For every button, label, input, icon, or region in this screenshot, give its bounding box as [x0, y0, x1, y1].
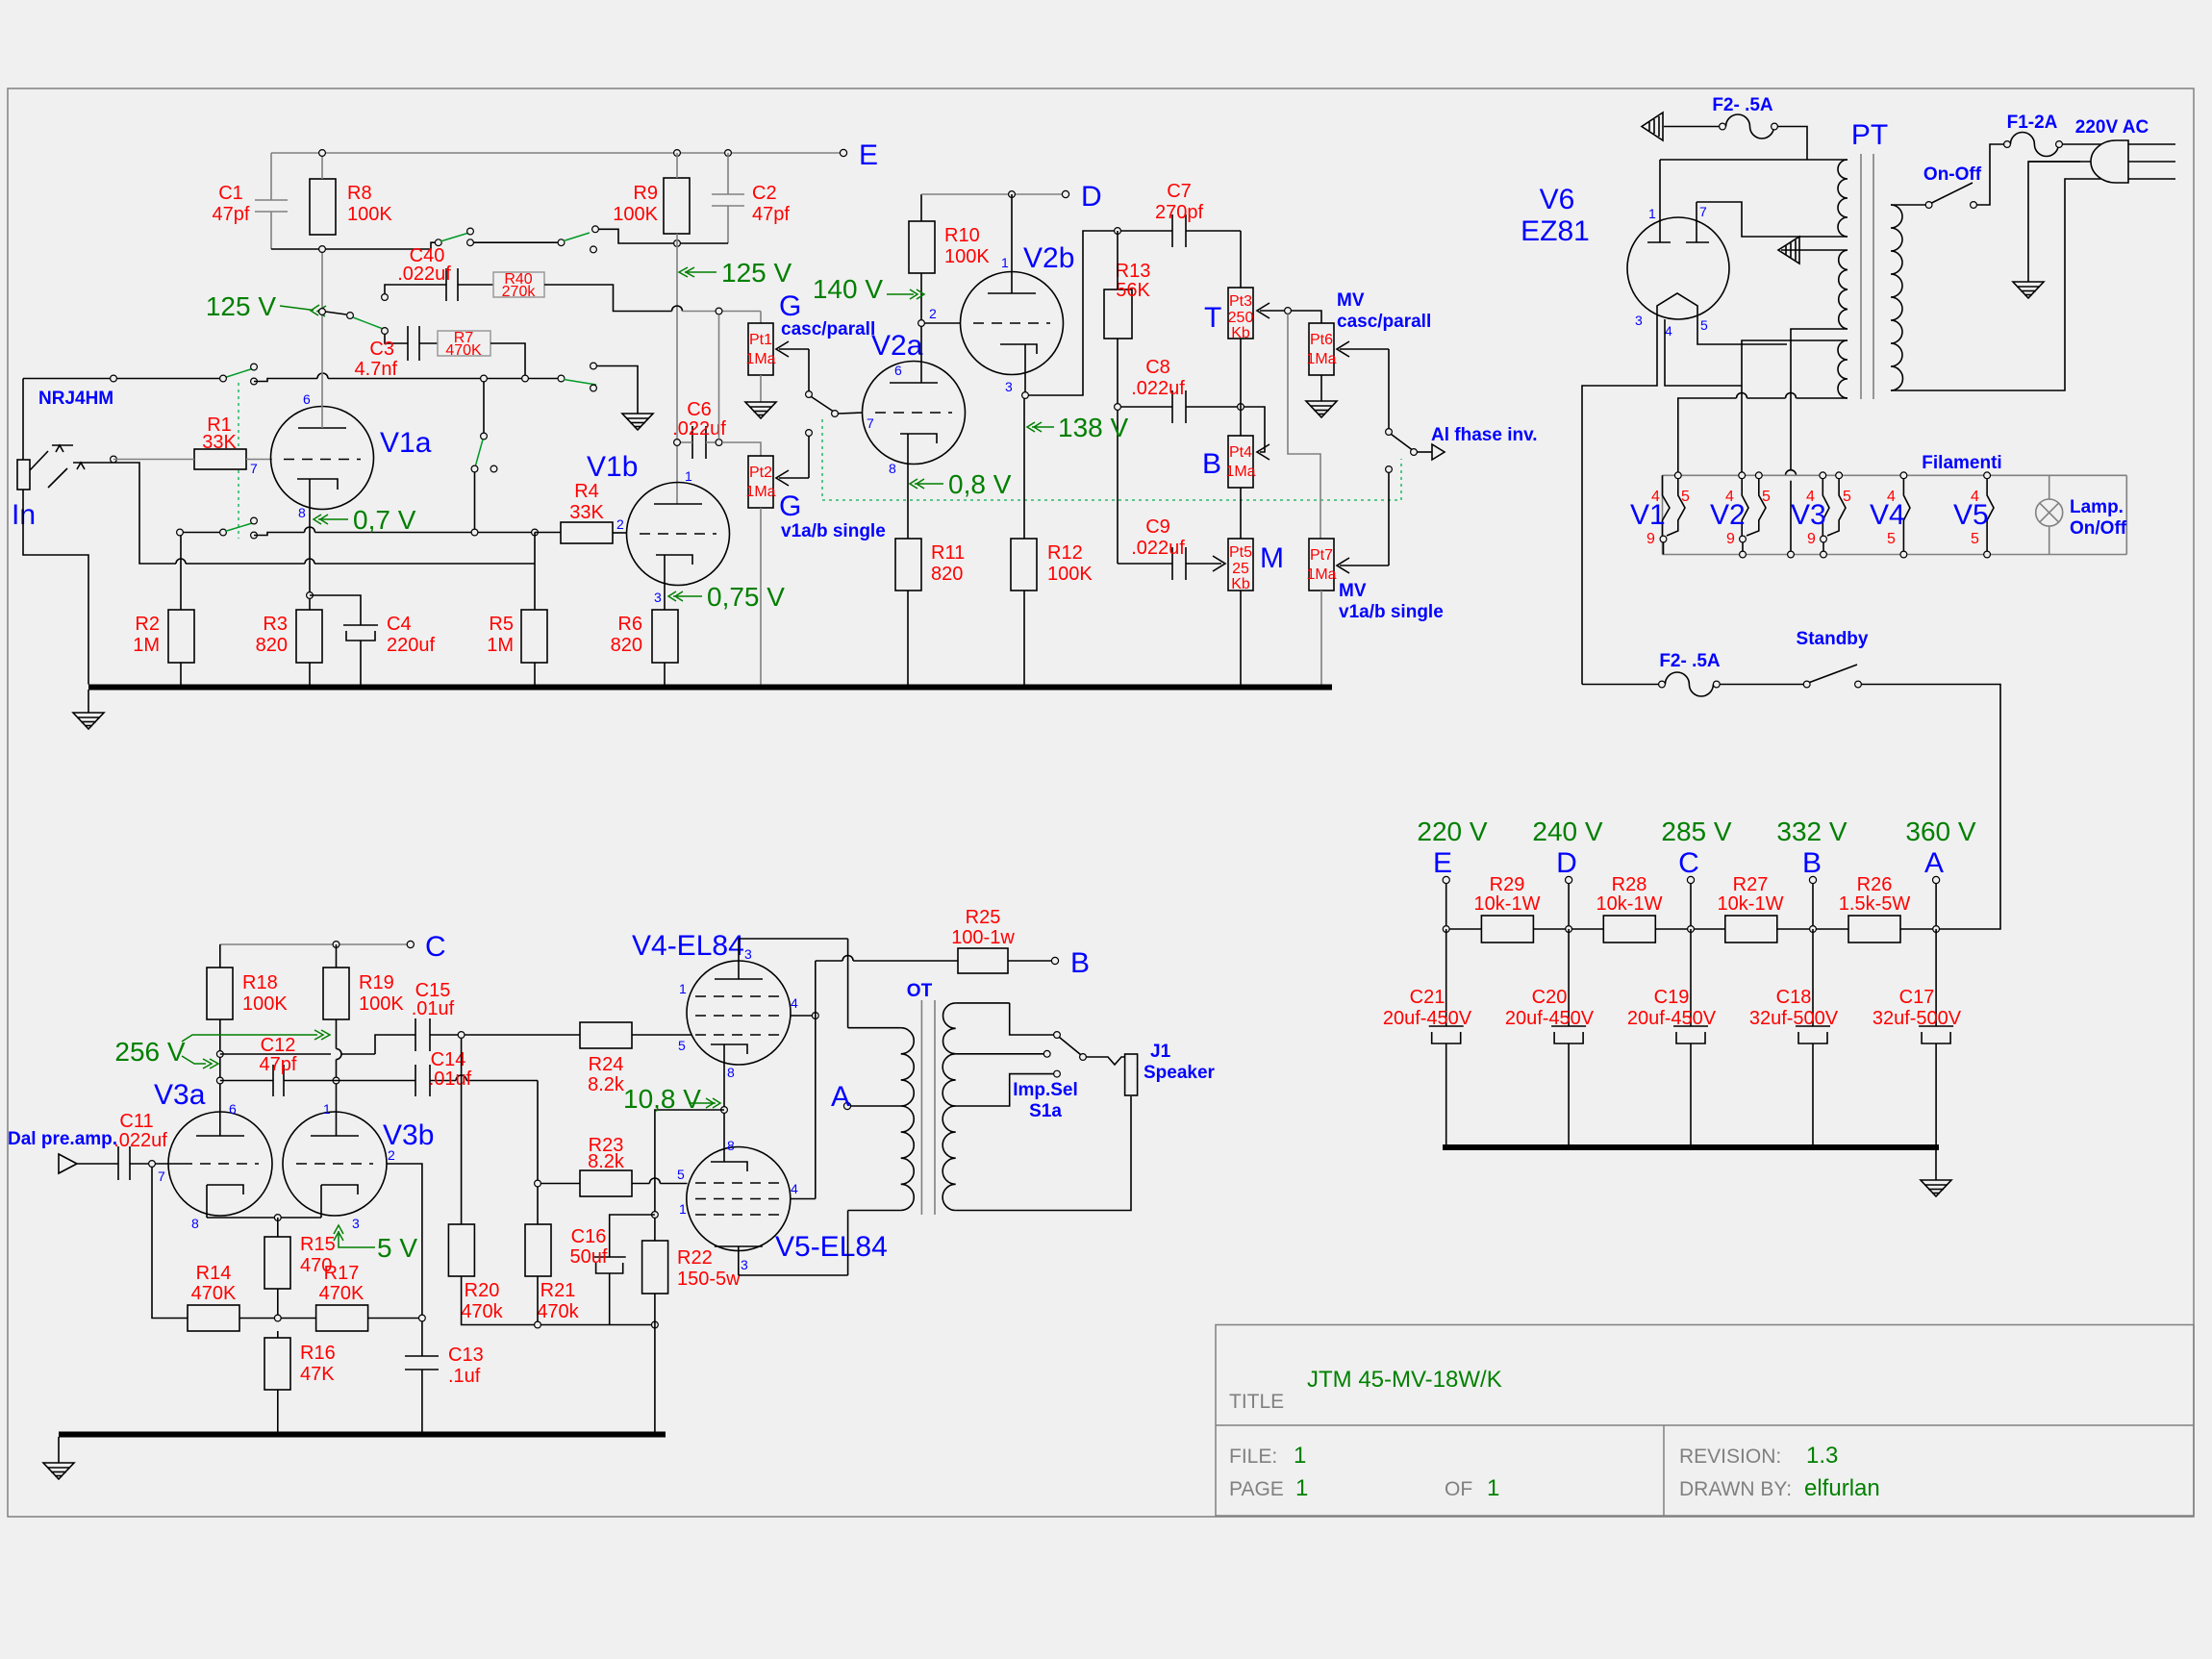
wire switch to R4 node	[474, 472, 476, 533]
potentiometer Pt7	[1309, 539, 1334, 591]
mains plug 220V AC	[2091, 140, 2128, 183]
svg-text:C8: C8	[1145, 357, 1170, 378]
svg-text:R17: R17	[324, 1263, 360, 1284]
wire V6 pin3 B+ out	[1582, 319, 1657, 685]
svg-text:R14: R14	[196, 1263, 232, 1284]
svg-text:C1: C1	[218, 183, 243, 204]
svg-text:V4: V4	[1870, 499, 1905, 531]
fuse F2 standby	[1582, 672, 1713, 696]
svg-text:R5: R5	[489, 614, 514, 635]
ground bus phase inverter	[59, 1432, 666, 1438]
svg-text:1.5k-5W: 1.5k-5W	[1839, 893, 1911, 915]
svg-text:470K: 470K	[319, 1283, 364, 1304]
svg-text:470K: 470K	[191, 1283, 237, 1304]
svg-text:V1a: V1a	[380, 427, 432, 459]
resistor R10	[909, 221, 935, 273]
potentiometer Pt3	[1228, 288, 1253, 339]
junction MV feed	[1285, 308, 1292, 314]
svg-text:V1b: V1b	[587, 451, 638, 483]
wire jack tip up to grid rail	[22, 379, 24, 461]
svg-text:100K: 100K	[1047, 564, 1093, 585]
wire pin4 node down to filament rail	[1741, 386, 1743, 472]
green arrow 125V at R9	[679, 267, 716, 277]
wire secondary bottom to jack sleeve	[956, 1096, 1131, 1211]
ground bus preamp	[88, 685, 1332, 691]
capacitor C6	[692, 426, 706, 459]
svg-text:R3: R3	[263, 614, 288, 635]
heater V2	[1742, 479, 1766, 536]
svg-text:1: 1	[685, 468, 692, 484]
wire R18 bottom to V3a plate	[219, 1019, 221, 1136]
svg-text:V2b: V2b	[1023, 242, 1074, 274]
svg-text:56K: 56K	[1116, 280, 1150, 301]
svg-text:R22: R22	[677, 1247, 713, 1269]
potentiometer Pt6	[1309, 323, 1334, 375]
capacitor C17	[1919, 929, 1953, 1144]
svg-text:2: 2	[388, 1147, 395, 1163]
svg-text:B: B	[1202, 448, 1221, 480]
svg-text:B: B	[1802, 847, 1822, 879]
svg-text:4: 4	[791, 995, 798, 1011]
switch Al fhase inv	[1386, 429, 1393, 436]
transformer PT core	[1861, 154, 1873, 399]
svg-text:R6: R6	[617, 614, 642, 635]
wire R7 out down to grid rail	[490, 343, 525, 375]
green dotted link line	[238, 383, 239, 539]
switch S-C40/C3 select	[325, 312, 346, 314]
capacitor C8	[1120, 390, 1241, 423]
svg-text:V2: V2	[1710, 499, 1746, 531]
svg-text:820: 820	[611, 635, 642, 656]
switch lower contact to Pt7 wiper	[1386, 466, 1393, 473]
svg-text:R11: R11	[931, 542, 965, 564]
junction	[481, 375, 488, 382]
wire R13 leads	[1117, 231, 1119, 289]
svg-text:v1a/b single: v1a/b single	[781, 521, 886, 541]
wire grid rail B with hop over V1a plate riser	[254, 373, 562, 382]
wire R2 leads	[180, 533, 182, 611]
resistor R1	[194, 449, 246, 469]
svg-text:7: 7	[867, 415, 874, 431]
svg-text:.01uf: .01uf	[412, 998, 455, 1019]
green dotted MV link	[822, 419, 1401, 500]
heater V1	[1663, 475, 1686, 536]
wire R16 leads	[277, 1331, 279, 1338]
capacitor C16	[593, 1215, 655, 1325]
Pt1 wiper arrow	[776, 341, 809, 391]
wire winding2 bottom to filament bottom rail	[1786, 329, 1848, 555]
resistor R11	[895, 539, 921, 591]
svg-text:3: 3	[1005, 379, 1013, 394]
svg-text:4: 4	[1665, 323, 1672, 339]
Pt6 wiper arrow from switch	[1337, 341, 1389, 429]
svg-text:E: E	[1433, 847, 1452, 879]
wire V1a plate riser (R8 bottom to plate, crosses grid rail)	[321, 249, 323, 428]
svg-text:V6: V6	[1540, 184, 1575, 215]
resistor R22	[642, 1241, 668, 1294]
svg-text:8: 8	[727, 1138, 735, 1153]
svg-text:100K: 100K	[242, 993, 288, 1015]
wire R19 bottom to V3b plate (hop over C15 wire)	[337, 1019, 342, 1136]
svg-text:100K: 100K	[613, 204, 658, 225]
green arrow 138 V	[1027, 422, 1054, 432]
wire R9 top	[676, 153, 678, 178]
svg-text:1Ma: 1Ma	[1225, 464, 1255, 480]
wire MV riser down to Pt7	[1288, 314, 1320, 539]
svg-text:10,8 V: 10,8 V	[623, 1084, 701, 1114]
ground bus B+ filter	[1443, 1144, 1939, 1150]
svg-text:332 V: 332 V	[1776, 817, 1847, 846]
wire V2b plate riser	[1011, 194, 1013, 293]
wire Pt4 to Pt5	[1240, 488, 1242, 539]
chassis arrow left of F2	[1642, 113, 1720, 140]
svg-text:OF: OF	[1445, 1478, 1472, 1500]
wire primary bottom to plug	[1891, 179, 2175, 390]
svg-text:R10: R10	[944, 225, 980, 246]
wire screen rail	[815, 961, 817, 1199]
green arrow 140 V	[887, 289, 924, 299]
PT mains primary winding	[1891, 205, 1903, 390]
svg-text:G: G	[779, 290, 801, 322]
junction	[471, 529, 478, 536]
svg-text:820: 820	[931, 564, 963, 585]
wire C6 node riser	[718, 314, 720, 440]
switch S-grid-A wiper	[225, 369, 252, 378]
svg-text:33K: 33K	[569, 502, 604, 523]
svg-text:4: 4	[791, 1181, 798, 1196]
svg-text:100K: 100K	[944, 246, 990, 267]
svg-text:5: 5	[678, 1038, 686, 1053]
wire R11 bottom	[907, 591, 909, 685]
junction	[319, 246, 326, 253]
filament top rail	[1663, 474, 2127, 476]
wire cathode node to R22	[655, 1110, 724, 1241]
svg-text:Standby: Standby	[1797, 629, 1869, 649]
svg-text:10k-1W: 10k-1W	[1718, 893, 1784, 915]
node stubs	[1446, 883, 1936, 929]
resistor R23	[580, 1170, 632, 1196]
resistor R4	[561, 522, 613, 543]
svg-text:5: 5	[1971, 531, 1979, 547]
triode V3a	[168, 1112, 272, 1216]
jack J1 Speaker	[1125, 1054, 1138, 1095]
svg-text:F2- .5A: F2- .5A	[1712, 95, 1773, 115]
wire fuse to standby	[1720, 684, 1803, 686]
svg-text:.1uf: .1uf	[448, 1366, 481, 1387]
svg-text:140 V: 140 V	[813, 274, 883, 304]
junction	[725, 150, 732, 157]
svg-text:47pf: 47pf	[752, 204, 790, 225]
svg-text:5: 5	[1700, 317, 1708, 333]
OT primary lower	[848, 1106, 915, 1211]
potentiometer Pt1	[748, 323, 773, 375]
svg-text:Speaker: Speaker	[1144, 1063, 1216, 1083]
svg-text:220V AC: 220V AC	[2075, 117, 2149, 138]
junction C6 riser top	[716, 308, 722, 314]
junction	[111, 375, 117, 382]
svg-text:3: 3	[741, 1257, 748, 1272]
svg-text:Kb: Kb	[1231, 576, 1250, 592]
potentiometer Pt4	[1228, 436, 1253, 488]
capacitor C12	[220, 1065, 337, 1096]
svg-text:V5-EL84: V5-EL84	[775, 1231, 888, 1263]
svg-text:PAGE: PAGE	[1229, 1478, 1284, 1500]
svg-text:125 V: 125 V	[206, 291, 276, 321]
wire secondary low tap	[956, 1074, 1054, 1106]
wire C14 to R21	[537, 1081, 539, 1225]
junction C8 left	[1115, 404, 1121, 411]
switch Imp.Sel S1a	[1060, 1038, 1081, 1055]
capacitor C19	[1673, 929, 1708, 1144]
svg-text:.022uf: .022uf	[1131, 538, 1185, 559]
wire R5 leads	[534, 533, 536, 611]
junction	[522, 375, 529, 382]
svg-text:V3: V3	[1791, 499, 1826, 531]
switch G casc/parall	[806, 391, 813, 398]
svg-text:Pt6: Pt6	[1310, 332, 1333, 348]
svg-text:1: 1	[1648, 206, 1656, 221]
triode V3b	[283, 1112, 387, 1216]
svg-text:5: 5	[1887, 531, 1896, 547]
svg-text:elfurlan: elfurlan	[1804, 1475, 1880, 1501]
wire V2b cathode feedback to C7 rail	[1028, 231, 1172, 395]
svg-text:8.2k: 8.2k	[588, 1074, 625, 1095]
resistor R29	[1481, 916, 1533, 943]
svg-text:Filamenti: Filamenti	[1922, 453, 2001, 473]
resistor R28	[1603, 916, 1655, 943]
svg-text:OT: OT	[907, 981, 933, 1001]
resistor R27	[1725, 916, 1777, 943]
svg-text:PT: PT	[1851, 119, 1888, 151]
svg-text:Al fhase inv.: Al fhase inv.	[1431, 425, 1538, 445]
svg-text:R2: R2	[135, 614, 160, 635]
wire R6 bottom	[664, 663, 666, 685]
svg-text:C20: C20	[1532, 987, 1568, 1008]
wire winding3 bottom to filament rail	[1678, 393, 1848, 472]
svg-text:470K: 470K	[445, 342, 482, 359]
svg-text:10k-1W: 10k-1W	[1596, 893, 1663, 915]
wire Pt2 bottom to bus	[760, 508, 762, 685]
svg-text:20uf-450V: 20uf-450V	[1627, 1008, 1717, 1029]
svg-text:1.3: 1.3	[1806, 1443, 1838, 1469]
wire V4 cathode down	[723, 1044, 725, 1162]
resistor R9	[664, 178, 690, 234]
wire R18/R19 top leads	[219, 944, 221, 968]
svg-text:F2- .5A: F2- .5A	[1659, 651, 1721, 671]
resistor R3	[296, 610, 322, 663]
switch S-casc-A left	[435, 239, 441, 246]
wire E rail	[271, 152, 843, 154]
wire F2 to HT winding / pin1	[1777, 127, 1807, 161]
svg-text:M: M	[1260, 542, 1284, 574]
svg-text:1Ma: 1Ma	[1306, 566, 1336, 583]
svg-text:C12: C12	[261, 1035, 296, 1056]
capacitor C1	[255, 153, 288, 249]
svg-text:NRJ4HM: NRJ4HM	[38, 389, 113, 409]
svg-text:V4-EL84: V4-EL84	[632, 930, 744, 962]
wire junction to Pt6 top	[1291, 311, 1321, 323]
junction C15/R20	[458, 1032, 465, 1039]
wire screen to R25 (hop over plate wire)	[816, 956, 958, 962]
input arrow from preamp	[59, 1154, 77, 1173]
resistor R12	[1011, 539, 1037, 591]
svg-text:.022uf: .022uf	[1131, 378, 1185, 399]
svg-text:150-5w: 150-5w	[677, 1269, 741, 1290]
wire R4 to V1b grid	[613, 532, 627, 534]
svg-text:R15: R15	[300, 1234, 336, 1255]
svg-text:3: 3	[654, 590, 662, 605]
svg-text:.022uf: .022uf	[113, 1130, 167, 1151]
wire C rail	[220, 943, 411, 945]
junction winding2 wire at bottom rail	[1788, 551, 1795, 558]
chassis arrow winding 2 top	[1778, 237, 1848, 264]
svg-text:9: 9	[1807, 531, 1816, 547]
svg-text:470k: 470k	[461, 1301, 503, 1322]
wire V1a cathode down to R3	[309, 479, 311, 610]
svg-text:D: D	[1556, 847, 1577, 879]
input jack NRJ4HM	[17, 445, 93, 490]
svg-text:REVISION:: REVISION:	[1679, 1445, 1781, 1468]
svg-text:DRAWN BY:: DRAWN BY:	[1679, 1478, 1792, 1500]
earth ground mains	[2013, 282, 2044, 298]
wire between switch halves	[473, 241, 558, 243]
svg-text:0,7 V: 0,7 V	[353, 505, 416, 535]
svg-text:32uf-500V: 32uf-500V	[1873, 1008, 1962, 1029]
svg-text:A: A	[1924, 847, 1944, 879]
svg-text:50uf: 50uf	[570, 1246, 608, 1268]
capacitor C13	[405, 1321, 439, 1435]
wire C6 node to Pt2	[722, 442, 761, 456]
wire standby to B+ rail	[1861, 685, 2000, 930]
pilot lamp	[2036, 475, 2063, 554]
svg-text:R16: R16	[300, 1343, 336, 1364]
junction C11/R14	[149, 1161, 156, 1168]
capacitor C40	[385, 268, 493, 301]
heater V3	[1822, 479, 1846, 536]
wire V5 g2 to screen rail	[791, 1198, 816, 1200]
wire R40 out to Pt1 feed (hop over V1b plate riser)	[544, 285, 683, 312]
heater V5	[1987, 479, 1994, 551]
wire V3a cathode leads	[206, 1185, 208, 1218]
junction cathode/C4	[307, 592, 314, 599]
svg-text:V5: V5	[1953, 499, 1989, 531]
resistor R16	[264, 1338, 290, 1390]
wire V6 pin4 heater	[1665, 319, 1742, 386]
resistor R13	[1104, 289, 1132, 339]
wire F1 to plug	[2062, 143, 2175, 145]
svg-text:T: T	[1204, 302, 1221, 334]
svg-text:C6: C6	[687, 399, 712, 420]
svg-text:Pt4: Pt4	[1229, 444, 1252, 461]
svg-text:Lamp.: Lamp.	[2070, 497, 2124, 517]
resistor R7	[438, 331, 490, 356]
triode V2b	[961, 272, 1064, 375]
wire C8 node to Pt4 wiper	[1244, 407, 1269, 460]
svg-text:1: 1	[679, 981, 687, 996]
svg-text:Dal pre.amp.: Dal pre.amp.	[8, 1129, 117, 1149]
resistor R6	[652, 610, 678, 663]
svg-text:C4: C4	[387, 614, 412, 635]
svg-text:5: 5	[677, 1167, 685, 1182]
svg-text:R20: R20	[465, 1280, 500, 1301]
wire lower contact to Pt2 wiper	[776, 436, 809, 486]
svg-text:S1a: S1a	[1029, 1101, 1062, 1121]
svg-text:C: C	[1678, 847, 1699, 879]
green arrow 256V to R19	[182, 1030, 330, 1042]
svg-text:220uf: 220uf	[387, 635, 435, 656]
svg-text:v1a/b single: v1a/b single	[1339, 602, 1444, 622]
svg-text:.022uf: .022uf	[397, 264, 451, 285]
svg-text:4.7nf: 4.7nf	[355, 359, 398, 380]
wire R20 leads	[461, 1038, 463, 1224]
wire D rail	[921, 193, 1066, 195]
svg-text:47K: 47K	[300, 1364, 335, 1385]
resistor R20	[448, 1224, 474, 1276]
svg-text:C: C	[425, 931, 446, 963]
resistor R2	[168, 610, 194, 663]
svg-text:E: E	[859, 139, 878, 171]
resistor R14	[188, 1305, 239, 1331]
svg-text:3: 3	[352, 1216, 360, 1231]
wire V1b cathode to R6	[664, 555, 666, 610]
wire R17 right to C13 node	[368, 1318, 422, 1320]
svg-text:V3a: V3a	[154, 1079, 206, 1111]
svg-text:MV: MV	[1337, 290, 1365, 311]
fuse F1	[2010, 133, 2058, 157]
resistor R25	[958, 948, 1008, 973]
filament rail closures	[1662, 475, 1664, 554]
wire R21 bottom junction	[537, 1276, 539, 1321]
wire C2 bottom to R9 node	[677, 242, 728, 244]
Pt1 ground	[760, 375, 762, 402]
svg-text:C2: C2	[752, 183, 777, 204]
PT heater winding 3	[1838, 340, 1848, 398]
resistor R15	[264, 1237, 290, 1289]
terminal A center tap	[850, 1105, 900, 1107]
svg-text:220 V: 220 V	[1417, 817, 1487, 846]
capacitor C7	[1172, 214, 1241, 288]
svg-text:Pt7: Pt7	[1310, 547, 1333, 564]
wire R8 top lead	[321, 153, 323, 179]
wire R24 to V4 grid	[632, 1034, 692, 1036]
svg-text:R29: R29	[1490, 874, 1525, 895]
wire cathode rail	[207, 1217, 321, 1219]
svg-text:R9: R9	[633, 183, 658, 204]
wire C11 node down to R14	[152, 1167, 188, 1318]
wire secondary top tap to switch	[1010, 1003, 1054, 1035]
svg-text:FILE:: FILE:	[1229, 1445, 1277, 1468]
switch S-grid-B to ground	[558, 375, 565, 382]
svg-text:1M: 1M	[133, 635, 160, 656]
svg-text:R12: R12	[1047, 542, 1083, 564]
svg-text:C7: C7	[1167, 181, 1192, 202]
capacitor C4 electrolytic	[310, 595, 378, 685]
svg-text:On-Off: On-Off	[1923, 164, 1982, 185]
svg-text:138 V: 138 V	[1058, 413, 1128, 442]
svg-text:6: 6	[894, 363, 902, 378]
svg-text:3: 3	[744, 946, 752, 962]
wire R12 leads	[1023, 398, 1025, 539]
PT heater winding 2	[1839, 250, 1848, 329]
svg-text:R27: R27	[1733, 874, 1769, 895]
wire V2a plate riser / R10 bottom / V2b grid node	[920, 273, 922, 383]
svg-text:C13: C13	[448, 1345, 484, 1366]
switch Standby	[1803, 681, 1810, 688]
svg-text:10k-1W: 10k-1W	[1474, 893, 1541, 915]
resistor R19	[323, 968, 349, 1019]
pentode V4	[687, 961, 791, 1065]
switch S-casc-A right	[558, 239, 565, 246]
